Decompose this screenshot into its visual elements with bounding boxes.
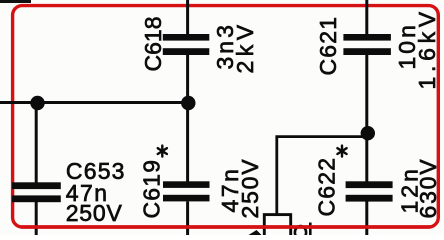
svg-text:C618: C618 — [140, 17, 166, 72]
svg-text:250V: 250V — [237, 158, 263, 219]
svg-text:C621: C621 — [315, 16, 341, 76]
svg-text:C622: C622 — [313, 157, 339, 217]
svg-text:250V: 250V — [66, 200, 123, 226]
svg-text:2kV: 2kV — [232, 20, 258, 73]
svg-text:C619: C619 — [138, 159, 164, 219]
svg-text:630V: 630V — [415, 158, 441, 219]
svg-text:1.6kV: 1.6kV — [414, 7, 440, 89]
